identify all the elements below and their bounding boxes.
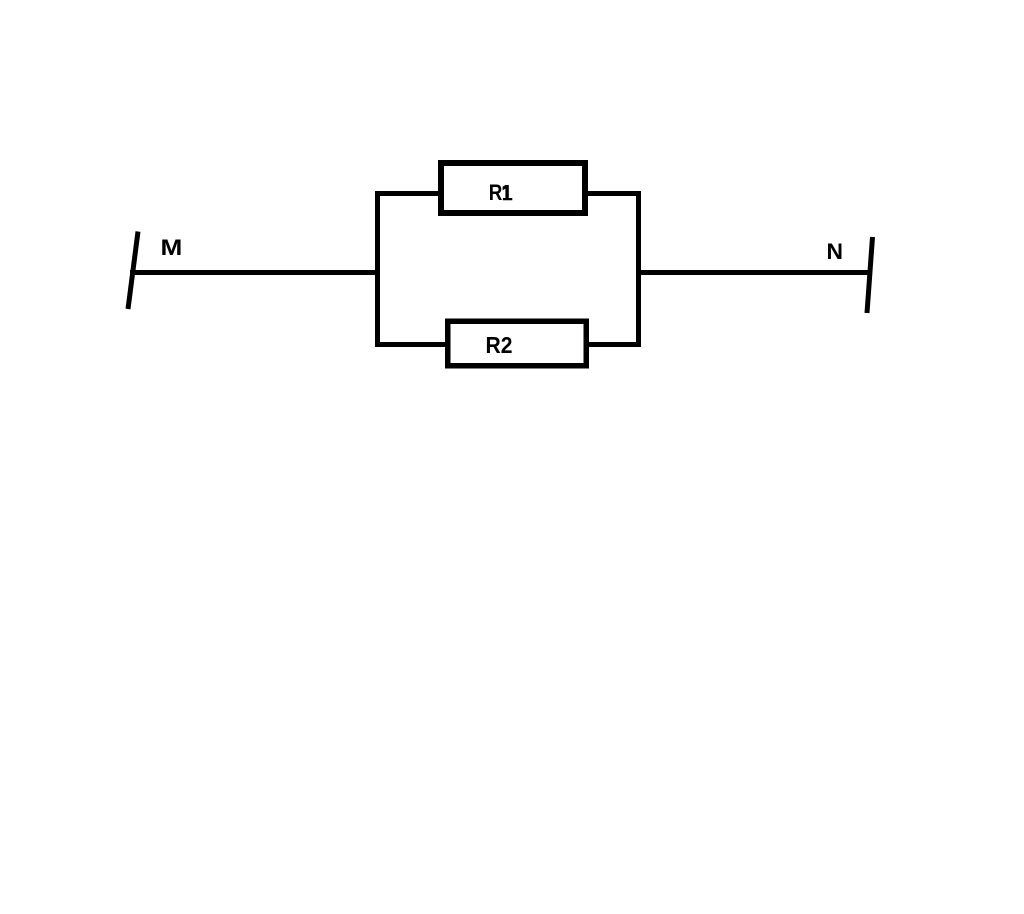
svg-text:R: R xyxy=(489,180,503,205)
svg-text:N: N xyxy=(827,239,844,264)
svg-text:R2: R2 xyxy=(486,332,513,358)
svg-text:M: M xyxy=(161,235,183,260)
